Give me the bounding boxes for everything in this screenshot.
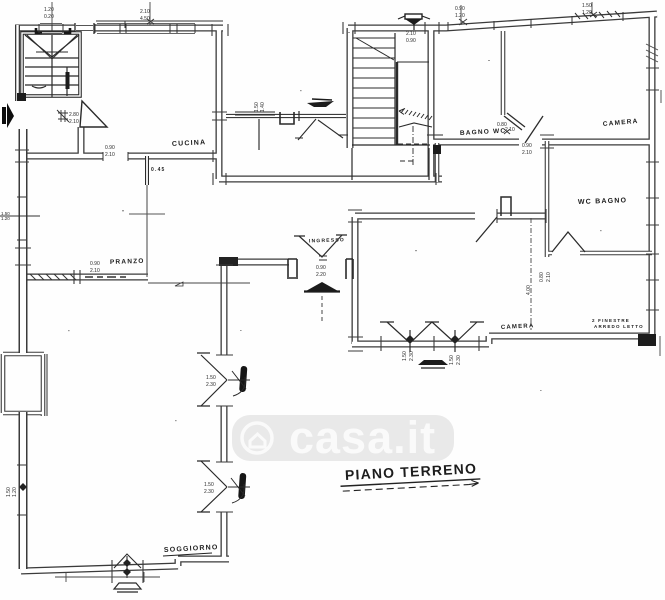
parapet wall with door (terrace) (226, 111, 348, 140)
svg-text:0.90: 0.90 (105, 145, 115, 151)
svg-text:0.90: 0.90 (522, 143, 532, 149)
svg-text:2.80: 2.80 (69, 112, 79, 118)
svg-text:1.20: 1.20 (12, 487, 18, 497)
svg-text:2.10: 2.10 (546, 272, 552, 282)
svg-text:0.80: 0.80 (539, 272, 545, 282)
inner partition walls (3, 31, 652, 416)
svg-text:2.10: 2.10 (105, 152, 115, 158)
camera jamb (501, 197, 511, 216)
svg-text:0.90: 0.90 (455, 6, 465, 12)
ingresso door V (294, 235, 347, 257)
bottom camera windows X (380, 322, 484, 352)
svg-text:2.10: 2.10 (90, 268, 100, 274)
black bits (17, 93, 26, 101)
ingresso arrow (306, 282, 338, 291)
door gap in top wall above stairs (75, 23, 94, 34)
svg-text:2 FINESTRE: 2 FINESTRE (592, 318, 630, 323)
svg-text:1.50: 1.50 (204, 482, 214, 488)
svg-text:2.10: 2.10 (522, 150, 532, 156)
svg-text:1.20: 1.20 (1, 216, 10, 221)
stair dark bar (66, 72, 70, 89)
svg-text:1.20: 1.20 (455, 13, 465, 19)
svg-text:2.30: 2.30 (206, 382, 216, 388)
black joint below stairs (433, 145, 441, 154)
svg-text:2.30: 2.30 (204, 489, 214, 495)
svg-text:2.10: 2.10 (69, 119, 79, 125)
svg-text:1.50: 1.50 (402, 351, 408, 361)
svg-text:0.90: 0.90 (406, 38, 416, 44)
top wall door jamb hooks (36, 28, 70, 33)
terrace double arrow (312, 99, 332, 100)
chamfer triangle kitchen corner (80, 101, 107, 127)
svg-text:2.10: 2.10 (140, 9, 150, 15)
svg-text:ARREDO LETTO: ARREDO LETTO (594, 324, 644, 329)
watermark casa.it band (232, 412, 454, 463)
svg-text:2.30: 2.30 (409, 351, 415, 361)
svg-text:0.90: 0.90 (90, 261, 100, 267)
svg-text:INGRESSO: INGRESSO (309, 237, 345, 244)
scan noise speckles (68, 32, 602, 421)
soggiorno bottom window X (114, 554, 141, 578)
left wall windows (0, 197, 40, 515)
svg-text:0.90: 0.90 (316, 265, 326, 271)
svg-text:casa.it: casa.it (289, 412, 436, 463)
left outer wall (thicker) (15, 25, 20, 101)
staircase top-left box (22, 33, 80, 97)
window marks top wall (39, 11, 623, 34)
title PIANO TERRENO with underline arrow (340, 460, 481, 493)
svg-text:0.45: 0.45 (151, 167, 166, 173)
svg-text:1.50: 1.50 (582, 3, 592, 9)
dimension stacks (44, 3, 592, 495)
svg-text:1.40: 1.40 (260, 102, 266, 112)
soggiorno right wall doors with leaves (197, 353, 227, 512)
central staircase steps (352, 33, 432, 180)
kitchen wall stub x147 (145, 156, 149, 185)
ingresso pillars (288, 259, 353, 279)
radiator hatches on wall F (27, 152, 183, 416)
svg-text:4.50: 4.50 (140, 16, 150, 22)
svg-text:2.10: 2.10 (406, 31, 416, 37)
svg-text:2.30: 2.30 (456, 355, 462, 365)
black rect near pranzo (219, 257, 238, 266)
dim cross clusters (57, 12, 597, 260)
doors right side (476, 113, 585, 252)
svg-text:1.50: 1.50 (449, 355, 455, 365)
svg-text:1.50: 1.50 (206, 375, 216, 381)
svg-text:PRANZO: PRANZO (110, 258, 145, 266)
top arrow symbol (398, 14, 430, 30)
left entry arrow (2, 107, 6, 124)
svg-text:2.20: 2.20 (316, 272, 326, 278)
svg-text:1.20: 1.20 (582, 10, 592, 16)
svg-text:0.20: 0.20 (44, 14, 54, 20)
roof marks (418, 360, 448, 365)
svg-text:1.20: 1.20 (44, 7, 54, 13)
